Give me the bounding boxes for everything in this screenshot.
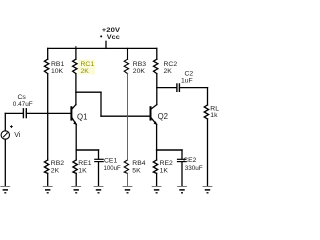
svg-text:Q2: Q2 xyxy=(158,112,168,121)
svg-text:2K: 2K xyxy=(164,68,173,75)
svg-text:1k: 1k xyxy=(210,112,218,119)
svg-text:RB2: RB2 xyxy=(51,160,64,167)
svg-text:0.47uF: 0.47uF xyxy=(13,101,33,108)
svg-text:CE1: CE1 xyxy=(104,158,117,165)
svg-text:10K: 10K xyxy=(51,68,64,75)
svg-text:330uF: 330uF xyxy=(185,165,203,172)
svg-text:+20V: +20V xyxy=(102,27,121,34)
svg-text:C2: C2 xyxy=(185,70,194,77)
svg-text:Cs: Cs xyxy=(18,94,27,101)
svg-text:RE2: RE2 xyxy=(160,160,173,167)
svg-text:20K: 20K xyxy=(133,68,146,75)
svg-text:CE2: CE2 xyxy=(183,157,196,164)
svg-text:5K: 5K xyxy=(132,168,141,175)
svg-text:100uF: 100uF xyxy=(104,165,121,172)
svg-text:Vi: Vi xyxy=(14,132,21,139)
svg-text:RC2: RC2 xyxy=(164,61,178,68)
svg-text:2K: 2K xyxy=(51,168,60,175)
svg-text:RB4: RB4 xyxy=(132,160,145,167)
svg-text:RC1: RC1 xyxy=(81,61,95,68)
svg-text:RB1: RB1 xyxy=(51,61,64,68)
svg-text:Q1: Q1 xyxy=(77,112,87,121)
svg-text:RE1: RE1 xyxy=(78,160,91,167)
svg-text:1K: 1K xyxy=(160,168,169,175)
svg-text:1K: 1K xyxy=(78,168,87,175)
svg-text:Vcc: Vcc xyxy=(107,34,120,41)
svg-text:1uF: 1uF xyxy=(181,78,193,85)
svg-text:RB3: RB3 xyxy=(133,61,146,68)
svg-text:2K: 2K xyxy=(81,68,90,75)
